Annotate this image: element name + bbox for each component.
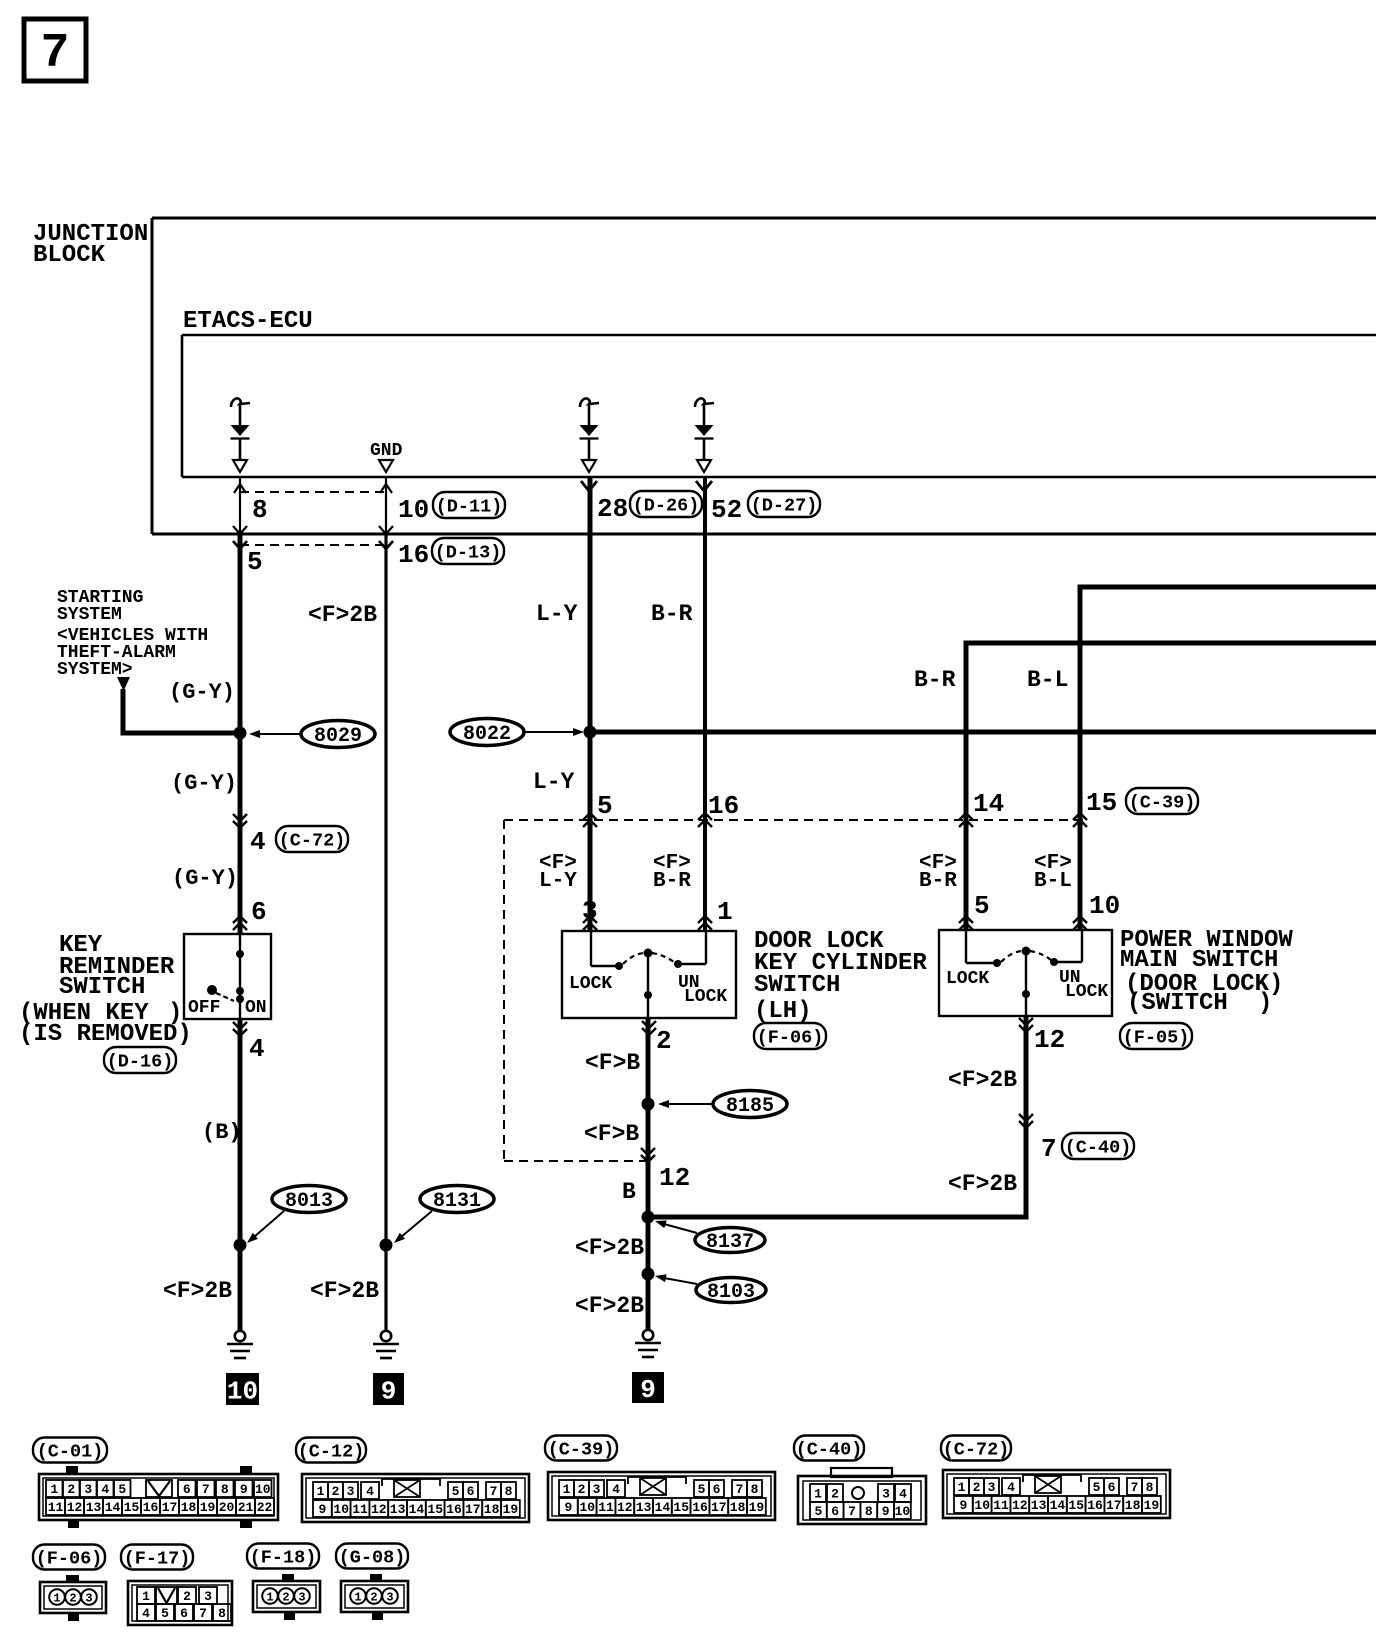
connector C-40 pinout bbox=[798, 1468, 926, 1524]
connector label C-39 bbox=[545, 1436, 617, 1461]
svg-text:(C-40): (C-40) bbox=[1065, 1137, 1132, 1158]
diode D1 bbox=[231, 398, 251, 472]
svg-text:15: 15 bbox=[673, 1500, 689, 1515]
label ON bbox=[245, 998, 267, 1018]
svg-text:10: 10 bbox=[1089, 891, 1120, 921]
splice 8103 bbox=[696, 1278, 766, 1304]
splice 8185 bbox=[713, 1091, 787, 1118]
ground G3 bbox=[635, 1330, 661, 1357]
svg-text:ETACS-ECU: ETACS-ECU bbox=[183, 308, 313, 335]
svg-text:15: 15 bbox=[124, 1500, 140, 1515]
svg-text:10: 10 bbox=[579, 1500, 595, 1515]
svg-text:15: 15 bbox=[1086, 788, 1117, 818]
svg-text:3: 3 bbox=[85, 1591, 92, 1605]
svg-text:8103: 8103 bbox=[707, 1281, 755, 1304]
svg-text:L-Y: L-Y bbox=[533, 769, 575, 795]
label B bbox=[622, 1179, 636, 1205]
dashed link pins 5-16 bbox=[240, 544, 386, 546]
wire W1 arrows C-72 bbox=[233, 814, 247, 828]
svg-text:9: 9 bbox=[564, 1500, 572, 1515]
splice 8131 bbox=[420, 1186, 494, 1213]
svg-text:B-R: B-R bbox=[651, 601, 693, 627]
svg-text:6: 6 bbox=[467, 1484, 475, 1499]
ground number 9 right bbox=[632, 1372, 664, 1405]
svg-text:18: 18 bbox=[730, 1500, 746, 1515]
connector label D-11 bbox=[433, 492, 505, 518]
svg-text:2: 2 bbox=[69, 1591, 76, 1605]
wire W9 arrows C-40 bbox=[1019, 1114, 1033, 1128]
svg-text:6: 6 bbox=[251, 897, 267, 927]
connector label F-05 inline bbox=[1120, 1023, 1192, 1049]
svg-text:(C-40): (C-40) bbox=[796, 1439, 863, 1460]
svg-text:L-Y: L-Y bbox=[539, 870, 577, 893]
wire feed B-L horizontal bbox=[1080, 585, 1376, 590]
pin 52 label bbox=[711, 495, 742, 525]
svg-text:8: 8 bbox=[252, 495, 268, 525]
wire W5 B-R right bbox=[964, 641, 969, 931]
label B-R top bbox=[651, 601, 693, 627]
svg-text:MAIN SWITCH: MAIN SWITCH bbox=[1120, 947, 1278, 974]
label (F)2B wire2 top bbox=[308, 602, 377, 628]
key reminder switch text bbox=[19, 932, 192, 1048]
ground number 10 bbox=[226, 1373, 259, 1406]
svg-text:8013: 8013 bbox=[285, 1190, 333, 1213]
svg-text:(F-18): (F-18) bbox=[250, 1547, 317, 1568]
pin 28 label bbox=[597, 494, 628, 524]
label UNLOCK door bbox=[678, 973, 727, 1007]
label LOCK power bbox=[946, 969, 989, 989]
label OFF bbox=[188, 998, 220, 1018]
svg-text:(D-13): (D-13) bbox=[435, 542, 502, 563]
svg-text:3: 3 bbox=[298, 1590, 305, 1604]
svg-text:10: 10 bbox=[895, 1504, 911, 1519]
connector label D-13 bbox=[432, 538, 504, 564]
key reminder switch internals bbox=[207, 934, 244, 1019]
svg-text:(C-39): (C-39) bbox=[1129, 792, 1196, 813]
label B-R right bbox=[914, 667, 956, 693]
svg-text:(D-26): (D-26) bbox=[633, 495, 700, 516]
wire W5 arrows dashed bbox=[959, 813, 973, 827]
svg-text:22: 22 bbox=[257, 1500, 273, 1515]
svg-text:1: 1 bbox=[717, 897, 733, 927]
svg-text:(F-05): (F-05) bbox=[1123, 1027, 1190, 1048]
svg-text:16: 16 bbox=[446, 1502, 462, 1517]
dashed link pins 8-10 bbox=[240, 491, 386, 493]
svg-text:8137: 8137 bbox=[706, 1231, 754, 1254]
svg-text:SWITCH: SWITCH bbox=[754, 972, 840, 999]
svg-text:B-R: B-R bbox=[919, 870, 957, 893]
ground G1 bbox=[227, 1331, 253, 1358]
svg-text:2: 2 bbox=[67, 1482, 75, 1497]
svg-text:7: 7 bbox=[41, 27, 70, 81]
wire W1 arrows above key switch bbox=[233, 916, 247, 930]
connector label F-06 inline bbox=[754, 1023, 826, 1049]
svg-text:(G-Y): (G-Y) bbox=[169, 680, 235, 705]
wire W4 arrows dashed bbox=[698, 813, 712, 827]
svg-text:18: 18 bbox=[181, 1500, 197, 1515]
pin 5 label bbox=[247, 547, 263, 577]
svg-text:3: 3 bbox=[882, 1487, 890, 1502]
svg-text:5: 5 bbox=[118, 1482, 126, 1497]
svg-text:LOCK: LOCK bbox=[1065, 982, 1108, 1002]
connector G-08 pinout bbox=[341, 1574, 408, 1620]
svg-text:(G-Y): (G-Y) bbox=[172, 866, 238, 891]
wire below power window arrows bbox=[1019, 1018, 1033, 1032]
label B-L bbox=[1027, 667, 1068, 693]
svg-text:17: 17 bbox=[711, 1500, 727, 1515]
svg-text:(C-72): (C-72) bbox=[943, 1439, 1010, 1460]
svg-text:B-R: B-R bbox=[653, 870, 691, 893]
svg-text:20: 20 bbox=[219, 1500, 235, 1515]
svg-text:(D-27): (D-27) bbox=[751, 495, 818, 516]
arrow 8029 bbox=[249, 730, 301, 738]
svg-text:16: 16 bbox=[692, 1500, 708, 1515]
svg-text:8131: 8131 bbox=[433, 1190, 481, 1213]
svg-text:<F>2B: <F>2B bbox=[575, 1293, 644, 1319]
svg-text:13: 13 bbox=[1031, 1498, 1047, 1513]
svg-text:OFF: OFF bbox=[188, 998, 220, 1018]
pin 6 label bbox=[251, 897, 267, 927]
svg-text:19: 19 bbox=[1144, 1498, 1160, 1513]
connector label C-72 inline bbox=[276, 826, 348, 852]
svg-text:9: 9 bbox=[640, 1375, 656, 1405]
svg-text:(IS REMOVED): (IS REMOVED) bbox=[19, 1021, 192, 1048]
svg-text:4: 4 bbox=[101, 1482, 109, 1497]
svg-text:6: 6 bbox=[713, 1482, 721, 1497]
svg-text:10: 10 bbox=[398, 495, 429, 525]
svg-text:(F-06): (F-06) bbox=[36, 1548, 103, 1569]
dashed harness boundary bbox=[504, 820, 1085, 1161]
wire W6 arrows dashed bbox=[1073, 813, 1087, 827]
pin 4 label key switch bbox=[249, 1034, 265, 1064]
pin 16 arrow bbox=[379, 541, 393, 549]
connector F-06 pinout bbox=[40, 1575, 106, 1621]
wire W7 door lock down bbox=[646, 1018, 651, 1330]
svg-text:<F>2B: <F>2B bbox=[948, 1067, 1017, 1093]
svg-text:(LH): (LH) bbox=[754, 998, 812, 1025]
pin 16 label C-39 bbox=[708, 791, 739, 821]
svg-text:4: 4 bbox=[142, 1606, 150, 1621]
svg-text:17: 17 bbox=[162, 1500, 178, 1515]
pin 15 label bbox=[1086, 788, 1117, 818]
label (F)2B 8103 bbox=[575, 1293, 644, 1319]
svg-text:12: 12 bbox=[659, 1163, 690, 1193]
wire W1 lower bbox=[238, 1019, 243, 1331]
label UNLOCK power bbox=[1059, 968, 1108, 1002]
svg-text:13: 13 bbox=[636, 1500, 652, 1515]
svg-text:1: 1 bbox=[317, 1484, 325, 1499]
svg-text:2: 2 bbox=[332, 1484, 340, 1499]
wire W2 bbox=[384, 534, 387, 1331]
svg-text:B-L: B-L bbox=[1027, 667, 1068, 693]
pin 5 label C-39 bbox=[597, 791, 613, 821]
svg-text:<F>2B: <F>2B bbox=[575, 1235, 644, 1261]
label L-Y lower bbox=[533, 769, 575, 795]
svg-text:16: 16 bbox=[1087, 1498, 1103, 1513]
svg-text:52: 52 bbox=[711, 495, 742, 525]
svg-text:2: 2 bbox=[973, 1480, 981, 1495]
wire W3 arrows box bbox=[583, 916, 597, 930]
svg-text:(F-06): (F-06) bbox=[757, 1027, 824, 1048]
wire W1 arrows below key switch bbox=[233, 1022, 247, 1036]
svg-text:12: 12 bbox=[1012, 1498, 1028, 1513]
svg-text:8022: 8022 bbox=[463, 723, 511, 746]
svg-text:7: 7 bbox=[490, 1484, 498, 1499]
pin 7 label bbox=[1041, 1134, 1057, 1164]
svg-text:<F>2B: <F>2B bbox=[310, 1278, 379, 1304]
svg-text:LOCK: LOCK bbox=[946, 969, 989, 989]
svg-text:9: 9 bbox=[882, 1504, 890, 1519]
svg-text:3: 3 bbox=[84, 1482, 92, 1497]
connector label F-06 bbox=[33, 1545, 105, 1570]
wire 8022 horizontal bbox=[588, 730, 1376, 735]
connector label F-18 bbox=[247, 1544, 319, 1569]
label (G-Y) 2 bbox=[171, 771, 237, 796]
svg-text:5: 5 bbox=[452, 1484, 460, 1499]
svg-text:1: 1 bbox=[50, 1482, 58, 1497]
svg-text:5: 5 bbox=[974, 891, 990, 921]
splice 8013 bbox=[272, 1186, 346, 1213]
svg-text:(F-17): (F-17) bbox=[124, 1548, 191, 1569]
svg-text:(D-11): (D-11) bbox=[436, 496, 503, 517]
svg-text:11: 11 bbox=[598, 1500, 614, 1515]
connector label F-17 bbox=[121, 1545, 193, 1570]
svg-text:5: 5 bbox=[1093, 1480, 1101, 1495]
svg-text:6: 6 bbox=[831, 1504, 839, 1519]
wire W1 upper bbox=[238, 534, 243, 934]
label (G-Y) 3 bbox=[172, 866, 238, 891]
svg-text:(G-Y): (G-Y) bbox=[171, 771, 237, 796]
svg-text:28: 28 bbox=[597, 494, 628, 524]
pin 12 label door lock bbox=[659, 1163, 690, 1193]
wire W3 L-Y bbox=[588, 477, 593, 931]
svg-text:2: 2 bbox=[183, 1589, 191, 1604]
svg-text:(C-72): (C-72) bbox=[279, 830, 346, 851]
svg-text:5: 5 bbox=[597, 791, 613, 821]
svg-text:<F>B: <F>B bbox=[584, 1121, 639, 1147]
pin 28 arrow bbox=[581, 481, 597, 491]
svg-text:7: 7 bbox=[1041, 1134, 1057, 1164]
svg-text:7: 7 bbox=[736, 1482, 744, 1497]
svg-text:2: 2 bbox=[370, 1590, 377, 1604]
connector label D-27 bbox=[748, 491, 820, 517]
svg-text:12: 12 bbox=[371, 1502, 387, 1517]
arrow 8013 bbox=[247, 1211, 284, 1243]
svg-text:7: 7 bbox=[202, 1482, 210, 1497]
svg-text:<F>2B: <F>2B bbox=[163, 1278, 232, 1304]
junction block box bbox=[152, 218, 1376, 534]
svg-text:4: 4 bbox=[612, 1482, 620, 1497]
svg-text:B-L: B-L bbox=[1034, 870, 1072, 893]
label (F)2B C-40 bbox=[948, 1171, 1017, 1197]
svg-text:3: 3 bbox=[988, 1480, 996, 1495]
node junction 8137 bbox=[642, 1211, 655, 1224]
svg-text:1: 1 bbox=[354, 1590, 361, 1604]
wire W6 B-L bbox=[1078, 585, 1083, 931]
label (F) B-R right bbox=[919, 852, 957, 893]
svg-text:4: 4 bbox=[249, 1034, 265, 1064]
svg-text:7: 7 bbox=[199, 1606, 207, 1621]
terminal flag starting system bbox=[117, 677, 130, 691]
svg-text:18: 18 bbox=[484, 1502, 500, 1517]
svg-text:8185: 8185 bbox=[726, 1095, 774, 1118]
svg-text:9: 9 bbox=[240, 1482, 248, 1497]
node junction 8131 bbox=[380, 1239, 393, 1252]
node junction 8103 bbox=[642, 1268, 655, 1281]
svg-text:(G-08): (G-08) bbox=[339, 1547, 406, 1568]
svg-text:2: 2 bbox=[831, 1487, 839, 1502]
pin 8 line bbox=[233, 477, 247, 534]
node junction 8022 bbox=[584, 726, 597, 739]
svg-text:(C-39): (C-39) bbox=[548, 1439, 615, 1460]
svg-text:1: 1 bbox=[142, 1589, 150, 1604]
svg-text:(C-12): (C-12) bbox=[298, 1441, 365, 1462]
svg-text:SYSTEM: SYSTEM bbox=[57, 605, 122, 625]
wire W4 B-R bbox=[703, 477, 707, 931]
connector label C-40 bbox=[794, 1436, 864, 1461]
svg-text:8: 8 bbox=[221, 1482, 229, 1497]
connector C-01 pinout bbox=[39, 1466, 278, 1528]
svg-text:10: 10 bbox=[227, 1376, 258, 1406]
arrow 8103 bbox=[655, 1274, 697, 1284]
svg-text:1: 1 bbox=[53, 1591, 60, 1605]
svg-text:B-R: B-R bbox=[914, 667, 956, 693]
svg-text:LOCK: LOCK bbox=[569, 974, 612, 994]
svg-text:18: 18 bbox=[1125, 1498, 1141, 1513]
wire below door lock arrows bbox=[642, 1021, 656, 1035]
svg-text:4: 4 bbox=[250, 827, 266, 857]
svg-text:8: 8 bbox=[1146, 1480, 1154, 1495]
wire W4 arrows box bbox=[698, 916, 712, 930]
connector label D-26 bbox=[630, 491, 702, 517]
pin 3 label bbox=[582, 896, 598, 926]
arrow 8137 bbox=[655, 1221, 697, 1234]
svg-text:10: 10 bbox=[255, 1482, 271, 1497]
pin 52 arrow bbox=[696, 481, 712, 491]
svg-text:14: 14 bbox=[973, 789, 1004, 819]
svg-text:14: 14 bbox=[105, 1500, 121, 1515]
pin 4 label C-72 bbox=[250, 827, 266, 857]
svg-text:15: 15 bbox=[1068, 1498, 1084, 1513]
label (F) B-R bbox=[653, 852, 691, 893]
key reminder switch box bbox=[184, 934, 271, 1019]
svg-text:L-Y: L-Y bbox=[536, 601, 578, 627]
svg-text:(D-16): (D-16) bbox=[107, 1051, 174, 1072]
svg-text:14: 14 bbox=[655, 1500, 671, 1515]
label (F)B 1 bbox=[585, 1050, 640, 1076]
svg-text:10: 10 bbox=[333, 1502, 349, 1517]
svg-text:8: 8 bbox=[218, 1606, 226, 1621]
svg-text:B: B bbox=[622, 1179, 636, 1205]
door lock switch internals bbox=[591, 931, 706, 1018]
pin 14 label bbox=[973, 789, 1004, 819]
svg-text:GND: GND bbox=[370, 441, 403, 461]
svg-text:8: 8 bbox=[751, 1482, 759, 1497]
wire W7 arrows dashed bbox=[641, 1148, 655, 1162]
power window main switch box bbox=[939, 930, 1112, 1016]
ETACS-ECU box bbox=[182, 335, 1376, 477]
label (F)2B power window bbox=[948, 1067, 1017, 1093]
node junction 8013 bbox=[234, 1239, 247, 1252]
connector C-12 pinout bbox=[302, 1474, 529, 1522]
svg-text:(SWITCH: (SWITCH bbox=[1127, 990, 1228, 1017]
svg-text:15: 15 bbox=[427, 1502, 443, 1517]
diode D2 bbox=[580, 398, 600, 472]
connector C-39 pinout bbox=[548, 1472, 775, 1520]
connector label C-01 bbox=[33, 1438, 107, 1463]
svg-text:2: 2 bbox=[282, 1590, 289, 1604]
connector F-18 pinout bbox=[253, 1574, 320, 1620]
svg-text:16: 16 bbox=[143, 1500, 159, 1515]
svg-text:9: 9 bbox=[381, 1376, 397, 1406]
label (B) bbox=[202, 1120, 242, 1145]
svg-text:1: 1 bbox=[958, 1480, 966, 1495]
label (F)2B 8137 bbox=[575, 1235, 644, 1261]
svg-text:11: 11 bbox=[48, 1500, 64, 1515]
svg-text:7: 7 bbox=[1131, 1480, 1139, 1495]
splice 8029 bbox=[301, 721, 375, 748]
svg-text:11: 11 bbox=[352, 1502, 368, 1517]
pin 12 label power window bbox=[1034, 1025, 1065, 1055]
pin 5 label power window bbox=[974, 891, 990, 921]
label (F)B 2 bbox=[584, 1121, 639, 1147]
svg-text:3: 3 bbox=[593, 1482, 601, 1497]
svg-text:<F>B: <F>B bbox=[585, 1050, 640, 1076]
svg-text:2: 2 bbox=[656, 1026, 672, 1056]
svg-text:5: 5 bbox=[814, 1504, 822, 1519]
svg-text:4: 4 bbox=[366, 1484, 374, 1499]
svg-text:BLOCK: BLOCK bbox=[33, 242, 106, 269]
label L-Y top bbox=[536, 601, 578, 627]
svg-text:19: 19 bbox=[749, 1500, 765, 1515]
svg-text:<F>2B: <F>2B bbox=[948, 1171, 1017, 1197]
svg-text:LOCK: LOCK bbox=[684, 987, 727, 1007]
svg-text:): ) bbox=[1258, 990, 1272, 1017]
wire W9 power window down bbox=[1024, 1016, 1029, 1220]
label ETACS-ECU bbox=[183, 308, 313, 335]
wire feed B-R horizontal bbox=[966, 641, 1376, 646]
arrow 8131 bbox=[394, 1211, 432, 1243]
splice 8137 bbox=[695, 1228, 765, 1254]
svg-text:1: 1 bbox=[563, 1482, 571, 1497]
svg-text:14: 14 bbox=[1050, 1498, 1066, 1513]
svg-text:19: 19 bbox=[503, 1502, 519, 1517]
svg-text:<F>2B: <F>2B bbox=[308, 602, 377, 628]
svg-text:ON: ON bbox=[245, 998, 267, 1018]
svg-text:17: 17 bbox=[1106, 1498, 1122, 1513]
label LOCK door bbox=[569, 974, 612, 994]
svg-text:12: 12 bbox=[1034, 1025, 1065, 1055]
pin 2 label bbox=[656, 1026, 672, 1056]
power window switch internals bbox=[966, 930, 1082, 1016]
svg-text:21: 21 bbox=[238, 1500, 254, 1515]
label (G-Y) 1 bbox=[169, 680, 235, 705]
node junction 8185 bbox=[642, 1098, 655, 1111]
connector label G-08 bbox=[336, 1544, 408, 1569]
pin 10 label bbox=[398, 495, 429, 525]
svg-text:2: 2 bbox=[578, 1482, 586, 1497]
svg-text:12: 12 bbox=[67, 1500, 83, 1515]
svg-text:7: 7 bbox=[848, 1504, 856, 1519]
splice 8022 bbox=[450, 719, 524, 746]
pin 8 label bbox=[252, 495, 268, 525]
svg-text:19: 19 bbox=[200, 1500, 216, 1515]
svg-text:4: 4 bbox=[1007, 1480, 1015, 1495]
svg-text:10: 10 bbox=[974, 1498, 990, 1513]
connector label D-16 bbox=[104, 1047, 176, 1073]
svg-text:(B): (B) bbox=[202, 1120, 242, 1145]
connector C-72 pinout bbox=[943, 1470, 1170, 1518]
